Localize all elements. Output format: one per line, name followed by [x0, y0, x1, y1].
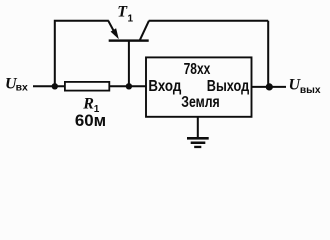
svg-text:Выход: Выход	[207, 78, 249, 95]
svg-text:78xx: 78xx	[184, 61, 211, 78]
svg-text:R: R	[82, 95, 94, 112]
svg-text:60м: 60м	[75, 111, 106, 130]
svg-text:Вход: Вход	[148, 78, 181, 95]
svg-text:вх: вх	[16, 83, 29, 94]
svg-text:вых: вых	[300, 85, 321, 96]
svg-text:Земля: Земля	[181, 94, 219, 111]
svg-text:1: 1	[128, 14, 134, 25]
